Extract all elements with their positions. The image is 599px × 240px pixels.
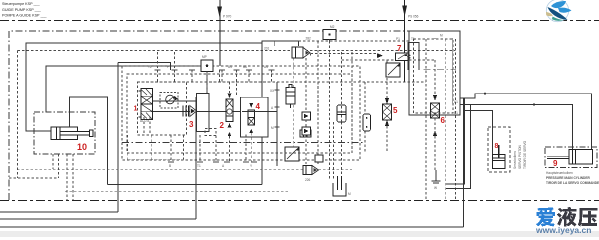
capsule element B: [363, 114, 371, 131]
svg-text:GUIDE PUMP KSP ___: GUIDE PUMP KSP ___: [2, 8, 42, 12]
main line through box4: [242, 111, 277, 113]
svg-text:9: 9: [553, 159, 558, 168]
right solid block: [409, 31, 460, 115]
svg-text:M: M: [348, 192, 351, 196]
small box P3: [300, 130, 311, 137]
svg-text:AL 0.8: AL 0.8: [140, 119, 149, 123]
dashed pilots to bottom ports: [128, 131, 251, 162]
svg-text:7: 7: [397, 44, 402, 53]
long vertical wire x196: [0, 97, 196, 219]
tank symbol M: [333, 176, 351, 196]
capsule element A: [337, 105, 346, 122]
caption for 9: [546, 171, 599, 185]
solid box around valve 1: [118, 63, 171, 71]
accumulator stack: [286, 84, 295, 108]
svg-text:T2: T2: [148, 65, 152, 69]
svg-text:3: 3: [189, 120, 194, 129]
port bars row top y70: [155, 69, 275, 71]
svg-text:6: 6: [441, 116, 446, 125]
pump symbol 282: [264, 37, 311, 59]
logo top right: [546, 0, 572, 22]
svg-text:T1: T1: [197, 164, 201, 168]
cylinder pilot lines dashed: [52, 154, 54, 169]
cylinder 10 dash-dot box: [34, 112, 95, 154]
long vertical wire x463: [0, 98, 464, 227]
supply arrow P970: [217, 0, 231, 66]
svg-text:1: 1: [134, 106, 138, 113]
svg-text:PS 056: PS 056: [408, 15, 419, 19]
wire from pump 282: [311, 54, 377, 56]
watermark: [535, 207, 597, 235]
svg-text:POMPE A GUIDE KSP ___: POMPE A GUIDE KSP ___: [2, 14, 48, 18]
manifold dashed box inner: [127, 74, 352, 153]
valve 2: [226, 94, 233, 136]
svg-text:A1: A1: [454, 100, 458, 104]
main control piston 9 box: [545, 147, 597, 168]
long vertical wire x118: [0, 63, 118, 213]
dashed cross line y82: [205, 81, 426, 83]
valve6 pilots: [434, 60, 436, 170]
svg-text:A4: A4: [264, 65, 268, 69]
svg-text:www.iyeya.cn: www.iyeya.cn: [535, 225, 591, 235]
svg-text:4: 4: [256, 102, 261, 111]
svg-text:10: 10: [77, 142, 87, 152]
outer dash-dot enclosure: [9, 31, 459, 200]
extra dashed verticals middle: [294, 41, 435, 180]
svg-text:Steuerpumpe KSP ___: Steuerpumpe KSP ___: [2, 2, 41, 6]
small rect near gauge B: [315, 155, 323, 162]
M2 measuring box: [323, 25, 336, 41]
dashed pilots from top ports: [137, 70, 271, 96]
wire to servo 8: [464, 111, 493, 155]
relief valve 7: [377, 53, 410, 61]
dashed verticals mid-right: [294, 82, 342, 180]
dashed return y170: [17, 169, 352, 171]
small dashed box under comp3: [205, 129, 216, 136]
svg-text:SERVO PISTON: SERVO PISTON: [518, 145, 522, 169]
cylinder feed wires: [26, 41, 275, 131]
check valve i1: [302, 112, 311, 120]
svg-text:TIROIR DE LA SERVO COMMANDE: TIROIR DE LA SERVO COMMANDE: [546, 181, 599, 185]
cylinder 10: [51, 127, 93, 140]
svg-text:M: M: [271, 126, 274, 130]
orifice with arrow: [160, 93, 178, 109]
svg-text:P1: P1: [396, 37, 400, 41]
dashed enclosure top: [18, 49, 455, 51]
system boundary bottom (dash-dot): [0, 200, 599, 202]
dashed verticals right: [426, 39, 456, 200]
tank symbol right: [432, 170, 441, 190]
labels in right block: [408, 43, 419, 70]
supply arrow PS056: [402, 0, 418, 82]
MP gauge box: [201, 55, 213, 72]
valve 4: [248, 103, 255, 133]
svg-text:TIROIR DE SERVO: TIROIR DE SERVO: [523, 140, 527, 169]
dash-dot mid boundary y142.5: [122, 142, 365, 144]
title text top-left: [2, 2, 48, 17]
upper link line y101: [153, 100, 196, 102]
svg-text:Servokolben: Servokolben: [513, 151, 517, 169]
svg-text:5: 5: [393, 106, 398, 115]
main flow line: [153, 111, 277, 113]
svg-text:M: M: [440, 34, 443, 38]
pump symbol 226: [303, 166, 319, 183]
taps from A1/B1 down: [446, 105, 471, 189]
port bars row bottom y162: [168, 161, 257, 163]
dashed verticals valve1 to enclosure: [158, 52, 175, 70]
svg-text:8: 8: [495, 143, 499, 150]
measuring device lower: [285, 147, 300, 161]
svg-text:B8: B8: [243, 65, 247, 69]
svg-text:W: W: [434, 186, 437, 190]
svg-text:B: B: [169, 164, 171, 168]
wire A1: [460, 94, 592, 150]
wire cylinder to manifold top: [46, 66, 207, 112]
svg-text:T1: T1: [411, 37, 415, 41]
svg-text:201: 201: [264, 47, 270, 51]
vertical caption for 8: [513, 140, 527, 169]
system boundary top (dash-dot): [0, 20, 599, 22]
svg-text:226: 226: [305, 178, 311, 182]
filter check valve 3: [183, 106, 196, 117]
svg-text:P: P: [167, 65, 169, 69]
wire B1: [460, 105, 572, 150]
flow arrow: [175, 97, 179, 100]
directional valve 1: [139, 89, 153, 120]
valve 5: [383, 98, 392, 126]
inner dashed left box: [9, 50, 59, 178]
svg-text:PRESSURE MAIN CYLINDER: PRESSURE MAIN CYLINDER: [546, 176, 590, 180]
svg-text:Hauptsteuerkolben: Hauptsteuerkolben: [546, 171, 573, 175]
valve 6: [431, 95, 440, 136]
svg-text:B4: B4: [228, 65, 232, 69]
measuring device upper: [386, 63, 401, 77]
inner solid vertical right block: [452, 38, 454, 105]
solid manifold bottom y184.5: [108, 184, 263, 186]
bottom gray strip: [0, 231, 599, 237]
svg-text:P 970: P 970: [223, 15, 231, 19]
junction dots: [484, 93, 486, 95]
box around valve 4: [241, 97, 269, 137]
solid vertical with port ticks: [275, 82, 280, 166]
svg-text:B1: B1: [454, 111, 458, 115]
svg-text:M2: M2: [330, 25, 335, 29]
dashed line y191.5: [65, 190, 290, 192]
svg-text:MP: MP: [202, 55, 207, 59]
box around filter 3: [197, 94, 210, 132]
dashed cross line y153: [127, 152, 352, 154]
manifold dashed box outer: [122, 66, 360, 160]
svg-text:2: 2: [220, 121, 225, 130]
dash-dot inner right: [424, 68, 456, 70]
valve5 pilots: [386, 60, 388, 153]
valve 1 dashed box: [138, 82, 187, 135]
check valve i2: [302, 127, 311, 135]
solid manifold right edge: [261, 43, 263, 185]
servo piston 8 box: [488, 127, 510, 172]
svg-text:282: 282: [306, 37, 312, 41]
right inner dashed block: [414, 39, 454, 113]
